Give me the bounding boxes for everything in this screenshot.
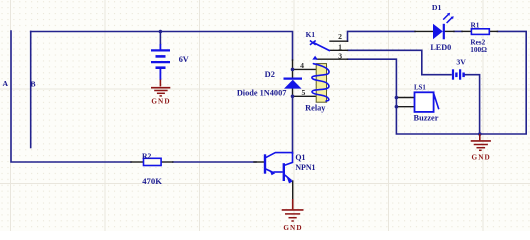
- svg-text:GND: GND: [472, 153, 491, 161]
- svg-text:B: B: [31, 79, 36, 88]
- svg-text:Q1: Q1: [295, 153, 305, 162]
- svg-text:D1: D1: [432, 3, 442, 12]
- svg-text:R1: R1: [470, 21, 479, 30]
- svg-text:K1: K1: [306, 30, 316, 39]
- svg-text:100Ω: 100Ω: [470, 45, 487, 54]
- svg-text:Diode 1N4007: Diode 1N4007: [237, 88, 287, 97]
- svg-text:R2: R2: [142, 152, 151, 161]
- svg-text:Relay: Relay: [305, 104, 326, 113]
- svg-text:3V: 3V: [456, 58, 466, 67]
- svg-text:6V: 6V: [179, 55, 189, 64]
- svg-text:3: 3: [338, 51, 342, 60]
- svg-text:GND: GND: [283, 224, 302, 231]
- svg-text:1: 1: [338, 43, 342, 52]
- svg-text:A: A: [2, 79, 8, 88]
- svg-text:D2: D2: [265, 70, 275, 79]
- svg-text:LED0: LED0: [430, 43, 451, 52]
- svg-text:5: 5: [301, 88, 305, 97]
- svg-text:470K: 470K: [142, 176, 162, 186]
- svg-text:Buzzer: Buzzer: [414, 113, 439, 122]
- svg-text:NPN1: NPN1: [295, 163, 315, 172]
- svg-text:4: 4: [300, 61, 304, 70]
- svg-text:LS1: LS1: [414, 84, 426, 91]
- svg-text:GND: GND: [151, 98, 170, 106]
- svg-text:2: 2: [338, 32, 342, 41]
